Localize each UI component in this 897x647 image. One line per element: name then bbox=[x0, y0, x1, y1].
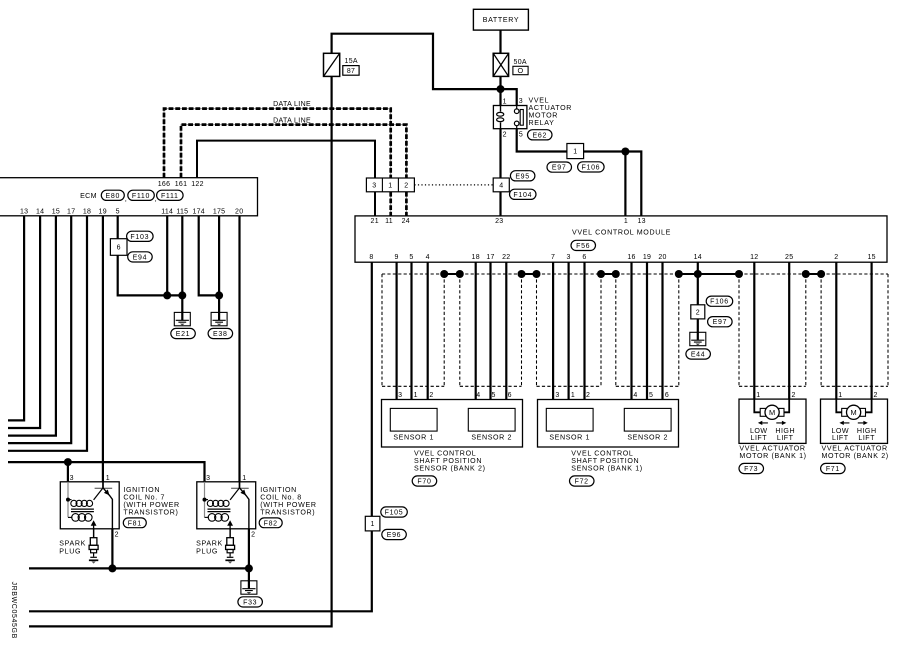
wire relay pin5 to connector 1 bbox=[517, 129, 567, 152]
svg-text:24: 24 bbox=[402, 218, 410, 225]
fuse 50A (O) bbox=[493, 53, 528, 76]
svg-text:E62: E62 bbox=[533, 132, 548, 139]
svg-text:M: M bbox=[769, 408, 775, 417]
svg-text:F111: F111 bbox=[161, 193, 179, 200]
svg-text:19: 19 bbox=[643, 254, 651, 261]
label ignition coil 7 bbox=[123, 486, 179, 517]
svg-text:ECM: ECM bbox=[80, 192, 97, 200]
svg-text:22: 22 bbox=[502, 254, 510, 261]
connector F105 bbox=[381, 507, 408, 517]
svg-text:2: 2 bbox=[429, 392, 433, 399]
svg-text:1: 1 bbox=[242, 475, 246, 482]
wire VCM 6 to sensor bbox=[583, 262, 585, 408]
svg-text:4: 4 bbox=[499, 182, 503, 189]
wire VCM 25 to motor F73 bbox=[788, 262, 790, 399]
svg-text:15: 15 bbox=[52, 209, 60, 216]
wire connector 2 to ground E44 bbox=[697, 319, 699, 332]
label spark plug 8 bbox=[196, 539, 223, 555]
connector F103 bbox=[127, 231, 154, 241]
node 175 join bbox=[215, 291, 223, 299]
connector F106 bbox=[706, 296, 733, 306]
svg-text:18: 18 bbox=[472, 254, 480, 261]
wire VCM 12 to motor F73 bbox=[753, 262, 755, 399]
svg-text:19: 19 bbox=[99, 209, 107, 216]
svg-text:6: 6 bbox=[582, 254, 586, 261]
connector F81 bbox=[123, 518, 146, 528]
wire VCM 14 shield drain bbox=[697, 262, 699, 305]
svg-text:15A: 15A bbox=[345, 58, 358, 65]
label sensor bank1 name bbox=[571, 449, 643, 472]
sensor assembly F70 VVEL control shaft position sensor bank 2 bbox=[382, 400, 523, 448]
wire VCM 17 to sensor bbox=[489, 262, 491, 408]
wire shield jumpers bbox=[444, 273, 821, 275]
svg-text:SENSOR (BANK 1): SENSOR (BANK 1) bbox=[571, 465, 643, 473]
svg-text:17: 17 bbox=[486, 254, 494, 261]
svg-text:F70: F70 bbox=[417, 479, 431, 486]
svg-text:O: O bbox=[518, 66, 524, 75]
ground E38 bbox=[211, 312, 227, 326]
svg-text:E95: E95 bbox=[515, 173, 530, 180]
connector E94 bbox=[128, 252, 153, 262]
svg-text:3: 3 bbox=[206, 475, 210, 482]
svg-text:SENSOR (BANK 2): SENSOR (BANK 2) bbox=[414, 465, 486, 473]
wire junction to fusible link 15A bbox=[332, 34, 501, 89]
svg-text:5: 5 bbox=[519, 132, 523, 139]
label ignition coil 8 bbox=[260, 486, 316, 517]
svg-text:F104: F104 bbox=[513, 192, 532, 199]
svg-text:LIFT: LIFT bbox=[751, 434, 768, 442]
wire ECM 18 bbox=[8, 216, 87, 451]
svg-text:F103: F103 bbox=[130, 234, 149, 241]
connector E95 bbox=[510, 171, 535, 181]
wire tap to coil7 pin 3 bbox=[67, 462, 69, 482]
svg-text:1: 1 bbox=[106, 475, 110, 482]
wire ECM 175 to ground E38 bbox=[218, 216, 220, 313]
wire VCM 18 to sensor bbox=[475, 262, 477, 408]
node coil7 supply tap bbox=[64, 458, 72, 466]
node drain junction bbox=[694, 270, 702, 278]
svg-text:E94: E94 bbox=[133, 254, 148, 261]
svg-text:2: 2 bbox=[696, 309, 700, 316]
svg-text:8: 8 bbox=[369, 254, 373, 261]
svg-text:166: 166 bbox=[158, 181, 170, 188]
svg-text:RELAY: RELAY bbox=[529, 119, 555, 127]
svg-text:F106: F106 bbox=[582, 164, 601, 171]
svg-text:17: 17 bbox=[67, 209, 75, 216]
shield boxes (dashed) bbox=[382, 274, 888, 386]
svg-text:BATTERY: BATTERY bbox=[483, 16, 520, 24]
svg-text:6: 6 bbox=[508, 392, 512, 399]
svg-text:3: 3 bbox=[555, 392, 559, 399]
connector F104 bbox=[510, 189, 537, 199]
wire 15A fuse long drop to bottom left bbox=[29, 76, 332, 626]
svg-text:5: 5 bbox=[409, 254, 413, 261]
wire ECM 174 bbox=[199, 216, 219, 296]
connector 1 (E97/F106) bbox=[567, 144, 584, 159]
connector F73 bbox=[739, 463, 764, 473]
connector E96 bbox=[382, 529, 407, 539]
motor F73 pin labels bbox=[756, 392, 796, 399]
node battery junction bbox=[497, 85, 505, 93]
svg-text:122: 122 bbox=[191, 181, 203, 188]
svg-text:F56: F56 bbox=[576, 243, 590, 250]
svg-text:2: 2 bbox=[115, 531, 119, 538]
svg-text:20: 20 bbox=[235, 209, 243, 216]
connector 3-1-2 (between ECM and VCM) bbox=[366, 178, 414, 192]
wire connector 1 to VCM pins 1 and 13 bbox=[584, 152, 642, 216]
wire coil8 pin2 to ground F33 bbox=[248, 529, 250, 581]
wire VCM 15 to motor F71 bbox=[870, 262, 872, 399]
wire dotted link connector 2 to connector 4 bbox=[414, 184, 494, 186]
wire ECM 19 to ignition coil 7 pin 1 bbox=[102, 216, 104, 482]
svg-text:20: 20 bbox=[658, 254, 666, 261]
svg-text:TRANSISTOR): TRANSISTOR) bbox=[123, 509, 178, 517]
ECM module bbox=[0, 178, 258, 216]
svg-text:114: 114 bbox=[161, 209, 173, 216]
ground E21 bbox=[174, 312, 190, 326]
wire ECM 122 to connector pin 3 (solid) bbox=[197, 141, 375, 178]
svg-text:2: 2 bbox=[791, 392, 795, 399]
svg-text:5: 5 bbox=[649, 392, 653, 399]
svg-text:115: 115 bbox=[176, 209, 188, 216]
svg-text:LIFT: LIFT bbox=[858, 434, 875, 442]
connector E97 bbox=[547, 162, 572, 172]
svg-text:3: 3 bbox=[372, 182, 376, 189]
fusible link 15A (87) bbox=[324, 53, 360, 76]
svg-text:SENSOR 2: SENSOR 2 bbox=[627, 433, 668, 441]
wire VCM 7 to sensor bbox=[552, 262, 554, 408]
connector F71 bbox=[821, 463, 846, 473]
svg-text:2: 2 bbox=[834, 254, 838, 261]
wire battery to fuse 50A bbox=[499, 30, 501, 53]
svg-text:SENSOR 2: SENSOR 2 bbox=[471, 433, 512, 441]
svg-text:1: 1 bbox=[571, 392, 575, 399]
label motor bank2 name bbox=[822, 445, 889, 461]
svg-text:PLUG: PLUG bbox=[196, 547, 218, 555]
svg-text:E38: E38 bbox=[213, 331, 228, 338]
svg-text:2: 2 bbox=[503, 132, 507, 139]
wire ECM 20 to ignition coil 8 pin 1 bbox=[238, 216, 240, 482]
svg-text:87: 87 bbox=[347, 68, 355, 75]
svg-text:SPARK: SPARK bbox=[196, 539, 223, 547]
spark plug 7 bbox=[89, 529, 98, 564]
svg-text:1: 1 bbox=[414, 392, 418, 399]
svg-text:6: 6 bbox=[665, 392, 669, 399]
svg-text:18: 18 bbox=[83, 209, 91, 216]
svg-text:F105: F105 bbox=[385, 510, 404, 517]
svg-text:F81: F81 bbox=[128, 520, 142, 527]
svg-text:SENSOR 1: SENSOR 1 bbox=[393, 433, 434, 441]
node coil8 ground join bbox=[245, 564, 253, 572]
motor F73 VVEL actuator motor bank 1 bbox=[739, 399, 806, 443]
connector F70 bbox=[412, 476, 437, 486]
wire VCM 16 to sensor bbox=[630, 262, 632, 408]
svg-text:2: 2 bbox=[586, 392, 590, 399]
wire ground bus bbox=[29, 567, 249, 569]
motor F71 VVEL actuator motor bank 2 bbox=[821, 399, 888, 443]
label relay name bbox=[529, 96, 573, 127]
svg-text:1: 1 bbox=[370, 521, 374, 528]
wire data line 1 (ECM 166 to connector pin 1) bbox=[164, 109, 391, 178]
svg-text:4: 4 bbox=[633, 392, 637, 399]
wire VCM 5 to sensor bbox=[410, 262, 412, 408]
svg-text:1: 1 bbox=[756, 392, 760, 399]
svg-text:1: 1 bbox=[388, 182, 392, 189]
wire 50A fuse to junction bbox=[499, 76, 501, 89]
svg-text:TRANSISTOR): TRANSISTOR) bbox=[260, 509, 315, 517]
svg-text:2: 2 bbox=[404, 182, 408, 189]
connector E62 bbox=[528, 130, 553, 140]
label sensor bank2 name bbox=[414, 449, 486, 472]
svg-text:F82: F82 bbox=[264, 520, 278, 527]
svg-text:3: 3 bbox=[519, 98, 523, 105]
sensor F70 pin labels bbox=[398, 392, 512, 399]
ground F33 bbox=[241, 580, 257, 594]
spark plug 8 bbox=[225, 529, 234, 564]
VCM top pin labels bbox=[371, 218, 646, 225]
svg-text:1: 1 bbox=[573, 149, 577, 156]
wire ECM 13 bbox=[8, 216, 24, 421]
svg-text:9: 9 bbox=[395, 254, 399, 261]
svg-text:LIFT: LIFT bbox=[777, 434, 794, 442]
wire supply line to ignition coils bbox=[8, 462, 205, 482]
transistor/coil assembly: ignition coil No.7 F81 bbox=[60, 475, 119, 539]
svg-text:7: 7 bbox=[551, 254, 555, 261]
wire ECM 5 through connector 6 to ground bbox=[117, 216, 119, 239]
wire VCM 19 to sensor bbox=[646, 262, 648, 408]
connector 1 (F105/E96) bbox=[365, 516, 380, 531]
svg-text:1: 1 bbox=[838, 392, 842, 399]
svg-text:21: 21 bbox=[371, 218, 379, 225]
wire ECM 14 bbox=[8, 216, 40, 428]
wire VCM 22 to sensor bbox=[505, 262, 507, 408]
svg-text:PLUG: PLUG bbox=[59, 547, 81, 555]
svg-text:F73: F73 bbox=[744, 466, 758, 473]
connector E80 bbox=[101, 190, 124, 200]
connector 6 (F103/E94) bbox=[110, 239, 127, 256]
wire VCM 3 to sensor bbox=[567, 262, 569, 408]
wire relay pin2 to connector 4 bbox=[499, 129, 501, 178]
node relay output branch bbox=[621, 148, 629, 156]
svg-text:16: 16 bbox=[627, 254, 635, 261]
wire junction to relay pin3 bbox=[501, 89, 517, 105]
svg-text:161: 161 bbox=[175, 181, 187, 188]
svg-text:DATA LINE: DATA LINE bbox=[273, 101, 311, 108]
svg-text:MOTOR (BANK 1): MOTOR (BANK 1) bbox=[739, 452, 806, 460]
svg-text:2: 2 bbox=[251, 531, 255, 538]
wire ECM 17 bbox=[8, 216, 71, 443]
svg-text:12: 12 bbox=[750, 254, 758, 261]
connector F82 bbox=[259, 518, 282, 528]
svg-text:14: 14 bbox=[36, 209, 44, 216]
motor F71 pin labels bbox=[838, 392, 878, 399]
svg-text:3: 3 bbox=[567, 254, 571, 261]
svg-text:,: , bbox=[125, 194, 127, 203]
svg-text:175: 175 bbox=[213, 209, 225, 216]
svg-text:M: M bbox=[851, 408, 857, 417]
svg-text:3: 3 bbox=[70, 475, 74, 482]
svg-text:JRBWC0545GB: JRBWC0545GB bbox=[10, 582, 17, 639]
sensor assembly F72 VVEL control shaft position sensor bank 1 bbox=[538, 400, 679, 448]
svg-text:E97: E97 bbox=[552, 165, 567, 172]
svg-text:1: 1 bbox=[503, 99, 507, 106]
svg-text:5: 5 bbox=[492, 392, 496, 399]
wire VCM 2 to motor F71 bbox=[835, 262, 837, 399]
wire ECM 115 to ground E21 bbox=[181, 216, 183, 313]
svg-text:25: 25 bbox=[785, 254, 793, 261]
svg-text:LIFT: LIFT bbox=[832, 434, 849, 442]
svg-text:23: 23 bbox=[495, 218, 503, 225]
svg-text:11: 11 bbox=[385, 218, 393, 225]
svg-text:3: 3 bbox=[398, 392, 402, 399]
wire junction to relay pin1 bbox=[499, 89, 501, 105]
wire VCM 9 to sensor bbox=[396, 262, 398, 408]
wire ECM 114 bbox=[166, 216, 168, 296]
svg-text:1: 1 bbox=[624, 218, 628, 225]
svg-text:13: 13 bbox=[20, 209, 28, 216]
svg-text:13: 13 bbox=[637, 218, 645, 225]
battery B1 bbox=[473, 9, 528, 30]
wire VCM 20 to sensor bbox=[661, 262, 663, 408]
connector F56 bbox=[571, 240, 596, 250]
svg-text:E97: E97 bbox=[713, 319, 728, 326]
svg-text:4: 4 bbox=[426, 254, 430, 261]
VCM bottom pin labels bbox=[369, 254, 875, 261]
wire coil7 pin2 down bbox=[111, 529, 113, 569]
connector 2 (F106/E97) bbox=[691, 305, 705, 319]
ground E44 bbox=[690, 332, 706, 346]
svg-text:F33: F33 bbox=[243, 599, 257, 606]
svg-text:14: 14 bbox=[694, 254, 702, 261]
wire data line 2 (ECM 161 to connector pin 2) bbox=[181, 125, 406, 178]
svg-text:F72: F72 bbox=[575, 479, 589, 486]
svg-text:5: 5 bbox=[116, 209, 120, 216]
wire ECM 15 bbox=[8, 216, 56, 436]
svg-text:2: 2 bbox=[873, 392, 877, 399]
svg-text:F71: F71 bbox=[826, 466, 840, 473]
svg-text:F106: F106 bbox=[710, 299, 729, 306]
wire connector 4 to VCM pin 23 bbox=[499, 192, 501, 216]
transistor/coil assembly: ignition coil No.8 F82 bbox=[197, 475, 256, 539]
connector E97 bbox=[708, 317, 733, 327]
svg-text:15: 15 bbox=[867, 254, 875, 261]
node 114 join bbox=[163, 291, 171, 299]
svg-text:E80: E80 bbox=[106, 193, 121, 200]
shield junction nodes bbox=[440, 270, 825, 278]
VVEL control module F56 bbox=[355, 216, 887, 262]
connector F106 bbox=[578, 162, 605, 172]
svg-text:SPARK: SPARK bbox=[59, 539, 86, 547]
svg-text:174: 174 bbox=[192, 209, 204, 216]
svg-text:6: 6 bbox=[117, 245, 121, 252]
svg-text:F110: F110 bbox=[132, 193, 150, 200]
ECM bottom pin labels bbox=[20, 209, 243, 216]
relay E62 VVEL ACTUATOR MOTOR RELAY bbox=[493, 98, 527, 138]
svg-text:E96: E96 bbox=[387, 532, 402, 539]
label spark plug 7 bbox=[59, 539, 86, 555]
svg-text:4: 4 bbox=[476, 392, 480, 399]
svg-text:MOTOR (BANK 2): MOTOR (BANK 2) bbox=[822, 452, 889, 460]
connector F72 bbox=[570, 476, 595, 486]
svg-text:50A: 50A bbox=[514, 59, 527, 66]
svg-text:VVEL CONTROL MODULE: VVEL CONTROL MODULE bbox=[572, 228, 671, 236]
sensor F72 pin labels bbox=[555, 392, 669, 399]
connector 4 (E95/F104) bbox=[493, 178, 509, 192]
wire VCM 8 long drop bbox=[29, 262, 372, 611]
node coil7 ground join bbox=[108, 564, 116, 572]
wire VCM 4 to sensor bbox=[427, 262, 429, 408]
svg-text:SENSOR 1: SENSOR 1 bbox=[549, 433, 590, 441]
svg-text:E21: E21 bbox=[176, 331, 191, 338]
label motor bank1 name bbox=[739, 445, 806, 461]
svg-text:E44: E44 bbox=[691, 352, 706, 359]
node 115 join bbox=[178, 291, 186, 299]
